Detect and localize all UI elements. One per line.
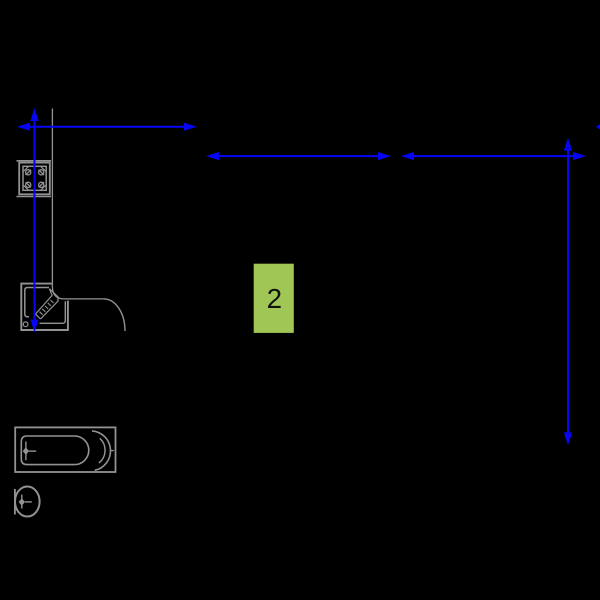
dimension line V2 (right vertical) [564, 138, 572, 446]
bathtub inner basin [21, 436, 88, 465]
ornament block: corner chamfers [24, 167, 46, 190]
wash basin bowl [15, 487, 40, 517]
ornament block: four rosette circles with slashes [26, 170, 44, 188]
shower door leaf end cap [35, 314, 40, 319]
dimension line V1 (left vertical) [30, 108, 38, 333]
clipped arrowhead at right edge [596, 124, 600, 129]
shower drain circle [23, 322, 28, 327]
shower tray inner rim bottom-right part [40, 301, 66, 323]
bathtub outer rect [15, 427, 115, 472]
wall: vertical segment with fillet corner and horizontal segment [52, 109, 104, 299]
shower tray outer outline [21, 284, 68, 330]
bathtub arc tick [111, 450, 114, 452]
wash basin flat left edge [14, 489, 16, 515]
dimension line H1 (upper horizontal, left) [17, 123, 197, 131]
ornament block: top cap line [17, 160, 52, 162]
bathtub end small arc [99, 438, 105, 463]
ornament block: bottom cap line [17, 196, 52, 198]
shower door leaf lower edge [41, 289, 59, 319]
shower tray inner rim left part [25, 288, 49, 317]
dimension line H2 (middle horizontal, left span) [206, 152, 391, 160]
dimension line H3 (middle horizontal, right span) [401, 152, 586, 160]
bathtub end large arc [92, 431, 111, 471]
bathtub faucet [26, 442, 36, 461]
shower door leaf hatching [40, 300, 54, 315]
shower door leaf upper edge [35, 289, 52, 315]
door swing arc [104, 299, 125, 331]
ornament block: inner square [23, 166, 46, 190]
svg-text:2: 2 [267, 283, 282, 314]
wash basin faucet [22, 495, 32, 509]
ornament block: outer square [19, 163, 50, 195]
room label 2 (green area badge) [254, 264, 294, 333]
